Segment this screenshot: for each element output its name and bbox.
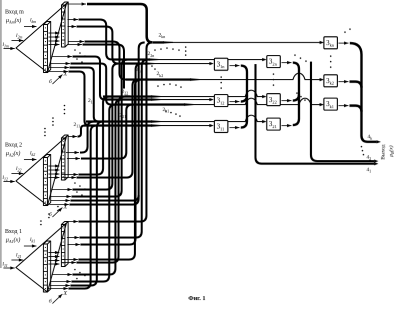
svg-text:μA1(x): μA1(x) <box>6 237 20 245</box>
wire 2_2n from block m to 3_2n <box>78 20 112 60</box>
page edge shading <box>0 0 2 268</box>
svg-text:X: X <box>62 291 67 297</box>
block 1 inner arrows <box>48 252 59 254</box>
svg-text:l1m: l1m <box>2 42 9 49</box>
block 3_k2 <box>324 75 338 87</box>
3_22 output arrow <box>281 100 291 102</box>
block 3_kn <box>324 37 338 49</box>
block 3_k1 <box>324 98 338 110</box>
block 1 wire merging into 2_21 <box>70 122 102 286</box>
wire 2_21 from block m merging into row <box>69 68 98 122</box>
svg-text:42: 42 <box>366 155 371 162</box>
svg-text:μB(x): μB(x) <box>387 145 394 156</box>
wire row 2_11 to 3_11 <box>84 124 152 126</box>
3_2n output arrow <box>281 62 291 64</box>
svg-text:Вход m: Вход m <box>5 10 24 16</box>
svg-text:lk2: lk2 <box>30 151 35 158</box>
svg-text:Вход 1: Вход 1 <box>5 229 22 235</box>
3_k2 hook into bus <box>349 82 361 88</box>
fuzzifier block 1 triangle <box>16 223 67 292</box>
column 2 bus <box>293 63 299 126</box>
fuzzifier block 2 triangle <box>16 137 67 206</box>
block 1 output arrows <box>68 221 78 223</box>
label 2_2n <box>146 51 154 58</box>
block 1 wire merging into 2_22 <box>76 97 124 263</box>
block 1 ladder 1 <box>43 244 47 292</box>
svg-text:lkm: lkm <box>30 18 36 25</box>
block 1 x axis arrow <box>52 294 62 304</box>
block 2 ladder 1 <box>43 158 47 206</box>
3_k1 hook into bus <box>349 106 361 112</box>
svg-text:l21: l21 <box>16 253 22 260</box>
3_k1 output arrow <box>338 105 348 107</box>
svg-text:μAm(x): μAm(x) <box>6 17 21 25</box>
column 1 output wire to 4_1 <box>255 64 374 164</box>
block 2 wire merging into 2_1n <box>72 64 118 190</box>
3_1n output arrow <box>229 65 239 67</box>
svg-text:221: 221 <box>119 113 126 120</box>
wire 2_k1 from block m to 3_k1 <box>70 64 111 105</box>
block 1 wire merging into 2_kn <box>78 42 152 221</box>
label 2_1n <box>134 67 142 74</box>
block 2 inner arrows <box>48 165 59 167</box>
output dots <box>361 146 363 148</box>
svg-text:Выход: Выход <box>380 144 386 159</box>
block 2 output arrows <box>68 136 77 138</box>
wire 2_12 from block m to 3_12 <box>72 57 105 100</box>
3_kn output arrow <box>338 42 348 44</box>
block 1 wire merging into 2_k1 <box>71 105 115 282</box>
block m side dots <box>74 49 76 51</box>
block 2 wire merging into row 1 <box>69 42 144 204</box>
wire 2_k2 from block m to 3_k2 <box>84 42 126 80</box>
block m ladder 1 <box>43 25 47 73</box>
svg-text:l22: l22 <box>16 166 22 173</box>
svg-text:б: б <box>49 298 52 305</box>
block m output arrows <box>67 3 86 5</box>
3_k2 output arrow <box>338 81 348 83</box>
block 3_22 <box>267 94 281 106</box>
block 3_2n <box>267 56 281 68</box>
fuzzifier block m triangle <box>16 4 67 73</box>
svg-text:б: б <box>49 78 52 85</box>
block 1 wire merging into 2_1n <box>80 64 141 245</box>
block 2 wire merging into 2_22 <box>78 97 109 175</box>
svg-text:211: 211 <box>73 122 80 129</box>
wire 2_1n from block m to 3_1n <box>76 27 118 64</box>
wire 2_11 from block m merging into row <box>68 72 89 126</box>
block m ladder 2 <box>61 5 65 47</box>
block 2 wire merging into 2_21 <box>80 122 94 153</box>
block 2 wire merging into 2_11 <box>77 126 84 137</box>
block 3_21 <box>267 118 281 130</box>
block 3_11 <box>214 120 228 132</box>
block 2 ladder 2 <box>61 138 65 180</box>
svg-text:2kn: 2kn <box>158 33 165 40</box>
column 2 output wire to 4_2 <box>311 62 374 162</box>
svg-text:Вход 2: Вход 2 <box>5 143 22 149</box>
svg-text:lk1: lk1 <box>30 237 35 244</box>
block m x axis arrow <box>52 75 62 85</box>
block 2 wire merging into 2_k2 <box>76 80 138 178</box>
block 1 side dots <box>74 269 76 271</box>
label 2_kn <box>157 32 165 39</box>
block 2 wire merging into 2_k1 <box>81 105 132 159</box>
svg-text:μA2(x): μA2(x) <box>6 150 20 158</box>
block 1 ladder 2 <box>61 225 65 267</box>
block 2 x axis arrow <box>52 208 62 218</box>
svg-text:l11: l11 <box>2 262 7 269</box>
wire row 2_21 to 3_21 <box>86 120 152 122</box>
3_12 output arrow <box>229 101 239 103</box>
column k bus and output wire to 4_k <box>350 43 377 142</box>
block 2 wire merging into vertical bus <box>70 195 138 200</box>
block 1 wire merging into 2_11 <box>68 126 96 289</box>
wire 2_22 from block m merging into 2_22 row <box>82 45 130 97</box>
svg-text:4k: 4k <box>367 134 372 141</box>
wire row 2_22 to 3_22 <box>103 95 152 97</box>
svg-text:l12: l12 <box>2 175 8 182</box>
svg-text:Фиг. 1: Фиг. 1 <box>188 295 205 302</box>
label 2_22 <box>120 89 128 96</box>
column 1 bus <box>241 66 247 128</box>
block 1 wire merging into 2_12 <box>72 100 121 275</box>
svg-text:22n: 22n <box>147 51 154 58</box>
svg-text:l2m: l2m <box>16 33 23 40</box>
label 2_12 <box>87 98 95 105</box>
label 2_11 <box>72 122 80 129</box>
block 3_12 <box>214 95 228 107</box>
block 1 wire merging into 2_k2 <box>78 80 141 260</box>
block m inner arrows <box>48 32 59 34</box>
ellipsis dots field <box>154 49 156 51</box>
block 1 wire merging into 2_2n <box>79 60 147 238</box>
block 2 wire merging into 2_2n <box>71 60 127 197</box>
label 2_k2 <box>155 71 163 78</box>
svg-text:2k2: 2k2 <box>156 71 163 78</box>
3_21 output arrow <box>281 125 291 127</box>
label 2_k1 <box>161 107 169 114</box>
svg-text:41: 41 <box>366 167 371 174</box>
block 2 side dots <box>74 182 76 184</box>
3_11 output arrow <box>229 127 239 129</box>
wire 2_kn from block m to 3_kn <box>87 4 153 42</box>
label 2_21 <box>118 112 126 119</box>
block 3_1n <box>214 58 228 70</box>
